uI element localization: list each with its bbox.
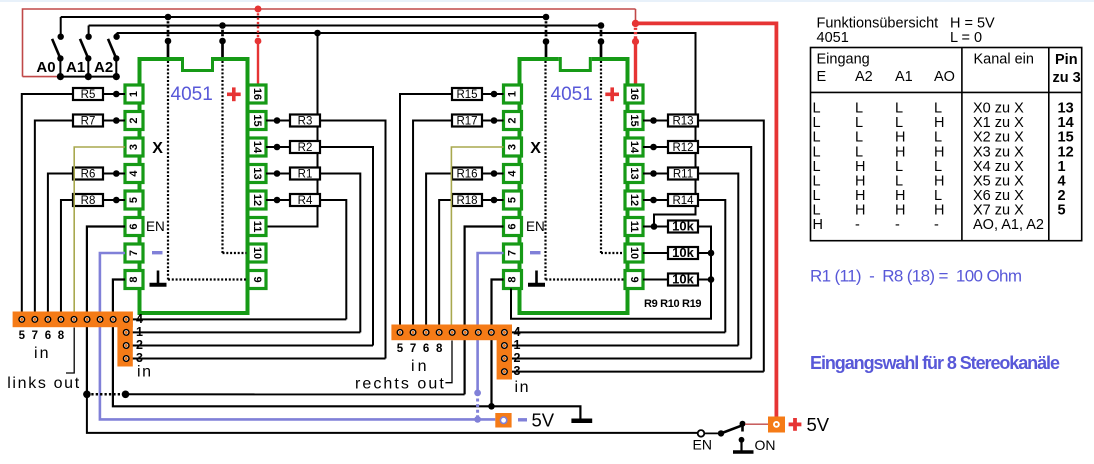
svg-text:A2: A2 [855, 69, 873, 85]
pin 5 of U1 [125, 191, 143, 209]
svg-text:5: 5 [19, 330, 26, 342]
pin 14 of U1 [248, 138, 266, 156]
wire red switch to +5V box [745, 423, 768, 425]
wire R18 to U2 pin5 with junction [482, 197, 504, 204]
svg-text:A2: A2 [94, 59, 113, 76]
svg-text:R9 R10 R19: R9 R10 R19 [644, 298, 702, 310]
resistor R6 [73, 168, 103, 181]
svg-text:in: in [34, 345, 49, 362]
wire R16 to U2 pin4 with junction [482, 170, 504, 177]
pin 7 of U2 [504, 244, 522, 262]
wire row 4 right [504, 331, 725, 333]
resistor R12 [668, 141, 698, 154]
svg-text:6: 6 [507, 223, 519, 229]
wire U2 pin9 to R19 [643, 279, 668, 281]
resistor R3 [290, 115, 320, 128]
wire U2 pin14 to R12 with junction [643, 144, 668, 151]
svg-text:6: 6 [128, 223, 140, 229]
connector rechts (in/out) strip [391, 325, 512, 380]
wire R7 to in-7 [35, 121, 73, 320]
pin 11 of U2 [625, 218, 643, 236]
pin 2 of U2 [504, 112, 522, 130]
svg-text:H: H [813, 217, 823, 233]
symbol minus VEE U1 [152, 251, 163, 254]
pin 11 of U1 [248, 218, 266, 236]
svg-text:8: 8 [507, 276, 519, 282]
ground symbol (supply) [571, 418, 592, 423]
svg-text:links out: links out [7, 375, 80, 392]
svg-text:R17: R17 [456, 116, 477, 128]
wire switch common bus [58, 76, 118, 78]
wire A2 jog to U2 pin 11 resistor node [654, 211, 696, 228]
pin 4 of U1 [125, 165, 143, 183]
ground symbol inside U2 [528, 271, 545, 285]
svg-text:1: 1 [128, 91, 140, 97]
pin 5 of U2 [504, 191, 522, 209]
wire pin13 to R1 with junction [266, 170, 290, 177]
wire U2 pin10 to R10 [643, 252, 668, 254]
wire bus A0 (switch A0 to rails) [61, 16, 546, 18]
wire row 2 right [504, 358, 751, 360]
svg-text:L = 0: L = 0 [950, 30, 982, 46]
pin 16 of U1 [248, 85, 266, 103]
svg-text:12: 12 [628, 194, 640, 206]
svg-text:5V: 5V [807, 414, 830, 435]
pin 9 of U1 [248, 271, 266, 289]
svg-text:7: 7 [32, 330, 38, 342]
junction dot bus A2 at U1 drop [314, 30, 321, 37]
svg-text:13: 13 [251, 167, 263, 179]
svg-text:7: 7 [507, 250, 519, 256]
svg-text:R1: R1 [298, 169, 313, 181]
svg-text:R12: R12 [672, 142, 693, 154]
wire VEE U1 pin7 (blue) [100, 253, 495, 419]
svg-text:11: 11 [251, 221, 263, 233]
svg-text:R14: R14 [672, 195, 694, 207]
svg-text:6: 6 [423, 343, 429, 355]
svg-text:in: in [515, 379, 529, 396]
wire R5 to pin1 with junction [103, 91, 125, 98]
svg-text:4: 4 [507, 170, 519, 177]
svg-text:10: 10 [628, 247, 640, 259]
pin 8 of U1 [125, 271, 143, 289]
pin 10 of U1 [248, 244, 266, 262]
pin 2 of U1 [125, 112, 143, 130]
svg-text:Eingangswahl für 8 Stereokanäl: Eingangswahl für 8 Stereokanäle [810, 353, 1060, 373]
wire row 3 right [504, 371, 763, 373]
svg-text:4: 4 [128, 170, 140, 177]
resistor R11 [668, 168, 698, 181]
wire EN U2 pin6 down [465, 227, 504, 395]
switch A1 [66, 26, 92, 81]
svg-text:5: 5 [507, 197, 519, 203]
wire +5V thick rail to supply [636, 23, 777, 416]
table Funktionsuebersicht 4051 [811, 48, 1082, 241]
pin 6 of U2 [504, 218, 522, 236]
svg-text:10k: 10k [672, 245, 694, 260]
switch A2 [94, 33, 120, 80]
wire EN run to switch [87, 394, 698, 433]
wire 10k common to ground pin8 [511, 227, 711, 319]
junction blue dot on VEE rail [474, 416, 481, 423]
pin 13 of U1 [248, 165, 266, 183]
wire R18 to in-8 right [439, 200, 452, 332]
svg-text:R6: R6 [81, 169, 96, 181]
wire R12 to row 2 right [698, 147, 751, 359]
svg-text:AO: AO [934, 69, 955, 85]
svg-text:3: 3 [514, 364, 521, 378]
junction red dot on thin red at U1 drop [255, 6, 262, 13]
pin 12 of U2 [625, 191, 643, 209]
svg-text:1: 1 [136, 325, 143, 339]
pin 7 of U1 [125, 244, 143, 262]
svg-text:10k: 10k [672, 272, 694, 287]
pin 15 of U2 [625, 112, 643, 130]
wire R8 to pin5 with junction [103, 197, 125, 204]
svg-text:15: 15 [251, 114, 263, 126]
wire GND U1 pin8 down [113, 280, 581, 419]
svg-text:R13: R13 [672, 116, 693, 128]
wire GND U2 pin8 down [492, 280, 504, 407]
wire row 1 left [126, 331, 360, 333]
wire pin15 to R3 with junction [266, 117, 290, 124]
svg-text:-: - [895, 217, 900, 233]
wire row 3 left [126, 358, 385, 360]
wire R17 to U2 pin2 with junction [482, 117, 504, 124]
svg-text:14: 14 [628, 141, 640, 154]
wire R2 to row 2 left [320, 147, 373, 346]
svg-text:R5: R5 [81, 89, 96, 101]
svg-text:8: 8 [58, 330, 65, 342]
svg-text:2: 2 [128, 117, 140, 123]
wire EN U1 pin6 down [87, 227, 125, 395]
pin 12 of U1 [248, 191, 266, 209]
EN switch open contact [698, 430, 705, 437]
resistor R4 [290, 194, 320, 207]
wire red to switch common [23, 76, 60, 78]
+5V supply box [768, 417, 785, 433]
svg-text:9: 9 [628, 276, 640, 282]
wire R14 to row 4 right [698, 200, 725, 332]
dashed blue jumper VEE [476, 393, 479, 420]
svg-text:zu 3: zu 3 [1053, 70, 1081, 86]
wire R5 to in-5 [22, 94, 73, 319]
svg-text:6: 6 [45, 330, 51, 342]
svg-text:10: 10 [251, 247, 263, 259]
resistor R17 [452, 115, 482, 128]
svg-text:-: - [855, 217, 860, 233]
resistor R8 [73, 194, 103, 207]
wire VEE U2 pin7 (blue) down [478, 253, 504, 393]
svg-text:2: 2 [507, 117, 519, 123]
pin 16 of U2 [625, 85, 643, 103]
pin 1 of U1 [125, 85, 143, 103]
pin 3 of U1 [125, 138, 143, 156]
svg-text:11: 11 [628, 221, 640, 233]
IC U2 4051 body with notch and select rails [520, 57, 628, 313]
svg-text:A0: A0 [36, 59, 55, 76]
svg-text:12: 12 [251, 194, 263, 206]
svg-text:R3: R3 [298, 116, 313, 128]
wire U2 pin15 to R13 with junction [643, 117, 668, 124]
wire EN run to U2 [126, 393, 465, 395]
svg-text:EN: EN [146, 219, 165, 234]
svg-text:8: 8 [436, 343, 443, 355]
svg-text:14: 14 [251, 141, 263, 154]
svg-text:R2: R2 [298, 142, 313, 154]
resistor R10 10k [668, 245, 698, 260]
resistor R7 [73, 115, 103, 128]
ground symbol inside U1 [150, 271, 167, 285]
wire R1 to row 1 left [320, 174, 360, 333]
pointer rechts out to hole [445, 341, 452, 383]
svg-text:R8: R8 [81, 195, 96, 207]
svg-text:13: 13 [628, 167, 640, 179]
wire R6 to pin4 with junction [103, 170, 125, 177]
wire R11 to row 1 right [698, 174, 738, 346]
wire U2 pin12 to R14 with junction [643, 197, 668, 204]
resistor R9 10k [668, 219, 698, 234]
svg-text:AO, A1, A2: AO, A1, A2 [973, 217, 1044, 233]
wire X out U2 (olive) pin3 to rechts out hole [451, 147, 503, 332]
symbol + VDD U1 [227, 87, 241, 101]
pin 10 of U2 [625, 244, 643, 262]
svg-text:4051: 4051 [817, 30, 849, 46]
svg-text:X: X [530, 140, 541, 157]
pin 4 of U2 [504, 165, 522, 183]
junction red dot at +5V rail [632, 20, 639, 27]
pin 8 of U2 [504, 271, 522, 289]
svg-text:10k: 10k [672, 219, 694, 234]
wire R3 to row 3 left [320, 121, 386, 359]
wire U2 pin13 to R11 with junction [643, 170, 668, 177]
svg-text:2: 2 [514, 351, 521, 365]
symbol minus -5V [518, 418, 527, 421]
resistor R1 [290, 168, 320, 181]
symbol + VDD U2 [605, 87, 619, 101]
svg-text:2: 2 [136, 338, 143, 352]
wire R19 to common with junction [698, 276, 714, 283]
wire A2 drop to U1 pin 11 [266, 33, 318, 227]
svg-text:E: E [817, 69, 827, 85]
wire X out U1 (olive) pin3 to links out hole [74, 147, 125, 319]
resistor R13 [668, 115, 698, 128]
svg-text:A1: A1 [66, 59, 85, 76]
svg-text:Eingang: Eingang [817, 52, 870, 68]
junction+dashed drop bus A1 to U2 rail [598, 22, 605, 60]
svg-text:R4: R4 [298, 195, 313, 207]
svg-text:5: 5 [397, 343, 404, 355]
svg-text:4051: 4051 [551, 84, 593, 105]
junction EN dot right [122, 391, 130, 399]
dashed red jumper to U2 pin16 [632, 20, 639, 85]
svg-text:8: 8 [128, 276, 140, 282]
svg-text:3: 3 [128, 144, 140, 150]
pin 13 of U2 [625, 165, 643, 183]
svg-text:A1: A1 [895, 69, 913, 85]
svg-text:4: 4 [514, 325, 521, 339]
resistor R18 [452, 194, 482, 207]
junction+dashed drop bus A0 to U1 rail [165, 14, 172, 60]
svg-text:5: 5 [128, 197, 140, 203]
pin 9 of U2 [625, 271, 643, 289]
resistor R15 [452, 88, 482, 101]
svg-text:EN: EN [693, 437, 712, 453]
svg-text:16: 16 [251, 88, 263, 100]
junction+dashed drop bus A1 to U1 rail [219, 22, 226, 60]
wire row 1 right [504, 345, 738, 347]
svg-text:Pin: Pin [1055, 52, 1078, 68]
EN switch arm and pivot [705, 421, 746, 437]
svg-text:1: 1 [507, 91, 519, 97]
pin 1 of U2 [504, 85, 522, 103]
wire R13 to row 3 right [698, 121, 764, 372]
svg-text:in: in [137, 364, 151, 381]
wire red drop to supply rail [635, 9, 637, 23]
svg-text:16: 16 [628, 88, 640, 100]
svg-text:1: 1 [514, 338, 521, 352]
resistor R16 [452, 168, 482, 181]
svg-text:3: 3 [507, 144, 519, 150]
connector links (in/out) strip [13, 312, 133, 367]
svg-text:4: 4 [136, 312, 143, 326]
wire bus A1 [89, 25, 601, 27]
svg-text:R16: R16 [456, 169, 477, 181]
svg-text:R7: R7 [81, 116, 96, 128]
symbol minus VEE U2 [530, 251, 541, 254]
svg-text:R18: R18 [456, 195, 477, 207]
svg-text:EN: EN [526, 219, 545, 234]
symbol + 5V supply [789, 418, 802, 431]
resistor R2 [290, 141, 320, 154]
wire bus A2 [117, 33, 696, 211]
wire R16 to in-6 right [426, 174, 452, 333]
wire row 2 left [126, 345, 373, 347]
resistor R14 [668, 194, 698, 207]
pointer links out to hole [66, 328, 74, 374]
pin 6 of U1 [125, 218, 143, 236]
wire pin12 to R4 with junction [266, 197, 290, 204]
switch A0 [36, 17, 64, 80]
svg-text:in: in [411, 358, 427, 375]
pin 14 of U2 [625, 138, 643, 156]
wire R17 to in-7 right [413, 121, 452, 333]
wire R7 to pin2 with junction [103, 117, 125, 124]
ON contact symbol [733, 437, 754, 452]
pin 15 of U1 [248, 112, 266, 130]
svg-text:7: 7 [410, 343, 416, 355]
junction EN dot left [83, 391, 91, 399]
junction blue dot U2 VEE [474, 390, 481, 397]
junction+dashed drop bus A0 to U2 rail [543, 14, 550, 60]
wire R15 to U2 pin1 with junction [482, 91, 504, 98]
wire pin14 to R2 with junction [266, 144, 290, 151]
wire R15 to in-5 right [400, 94, 452, 332]
svg-text:ON: ON [755, 437, 776, 453]
svg-text:9: 9 [251, 276, 263, 282]
svg-text:R11: R11 [673, 169, 693, 181]
pin 3 of U2 [504, 138, 522, 156]
svg-text:5V: 5V [532, 410, 555, 431]
wire R8 to in-8 [61, 200, 73, 319]
IC U1 4051 body with notch and select rails [140, 57, 248, 313]
junction GND U2 on ground run [488, 403, 495, 410]
svg-text:Kanal ein: Kanal ein [974, 52, 1034, 68]
svg-text:X: X [152, 140, 163, 157]
wire R10 to common with junction [698, 250, 714, 257]
wire row 4 left [126, 318, 346, 320]
-5V supply box [495, 413, 511, 428]
dashed EN jumper [87, 393, 126, 396]
wire R6 to in-6 [48, 174, 73, 320]
dashed red jumper to U1 pin16 [255, 6, 262, 85]
svg-text:7: 7 [128, 250, 140, 256]
svg-text:R1 (11) - R8 (18) = 100 Ohm: R1 (11) - R8 (18) = 100 Ohm [810, 267, 1022, 286]
svg-text:15: 15 [628, 114, 640, 126]
svg-text:5: 5 [1058, 202, 1066, 218]
svg-text:R15: R15 [456, 89, 477, 101]
wire U2 pin11 to R9 with junction [643, 223, 668, 230]
wire +5V red loop from supply to ICs [23, 9, 636, 77]
resistor R5 [73, 88, 103, 101]
resistor R19 10k [668, 272, 698, 287]
svg-text:-: - [934, 217, 939, 233]
wire R4 to row 4 left [320, 200, 346, 319]
svg-text:4051: 4051 [171, 84, 213, 105]
